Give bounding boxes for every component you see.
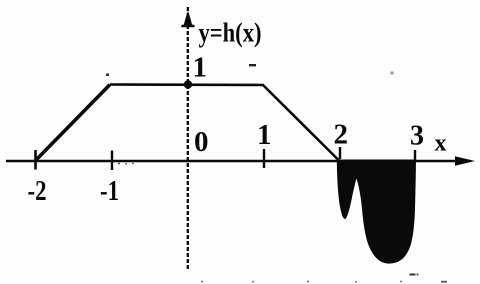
- svg-text:1: 1: [257, 119, 272, 151]
- svg-text:0: 0: [194, 126, 209, 158]
- svg-text:-2: -2: [28, 175, 47, 207]
- svg-text:3: 3: [410, 121, 424, 152]
- svg-text:2: 2: [334, 119, 349, 151]
- svg-text:-1: -1: [100, 175, 119, 207]
- svg-text:y=h(x): y=h(x): [199, 18, 262, 48]
- svg-text:1: 1: [193, 52, 208, 84]
- svg-text:x: x: [435, 131, 447, 157]
